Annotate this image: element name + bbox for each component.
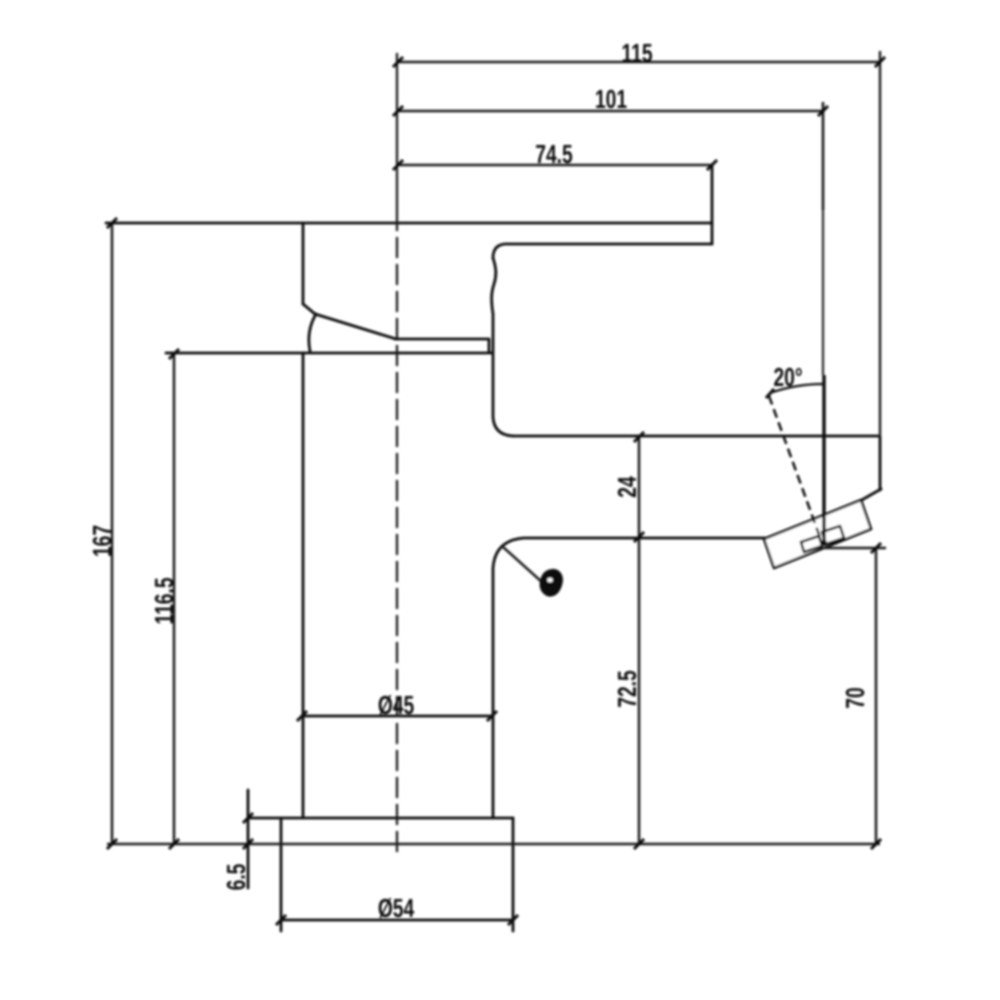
svg-text:167: 167 <box>87 525 117 557</box>
svg-text:Ø45: Ø45 <box>378 690 415 720</box>
svg-text:101: 101 <box>595 84 627 114</box>
svg-text:24: 24 <box>612 476 642 498</box>
svg-text:72.5: 72.5 <box>612 670 642 708</box>
svg-text:6.5: 6.5 <box>221 863 251 890</box>
svg-text:20°: 20° <box>773 362 802 392</box>
svg-text:115: 115 <box>621 38 652 68</box>
svg-text:Ø54: Ø54 <box>378 893 415 923</box>
svg-text:116.5: 116.5 <box>149 577 179 624</box>
svg-text:74.5: 74.5 <box>535 139 573 169</box>
svg-text:70: 70 <box>840 687 870 708</box>
